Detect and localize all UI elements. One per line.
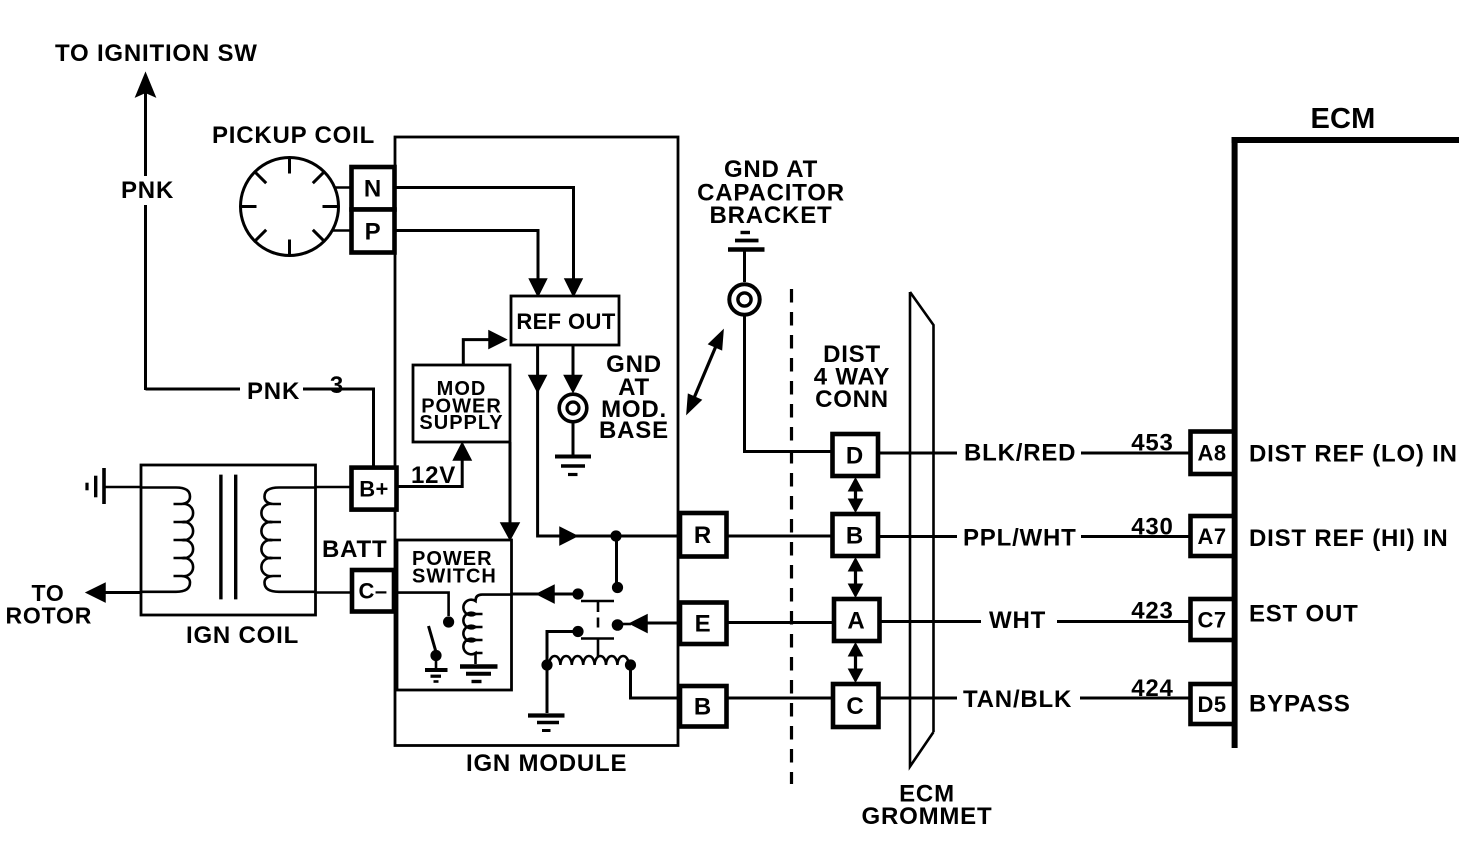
ground under power switch coil <box>460 667 498 682</box>
label TO ROTOR <box>6 580 93 629</box>
wire N to REF OUT (down arrow) <box>395 188 582 297</box>
wire E to connector A <box>727 621 835 624</box>
wire connector B to A7 (PPL/WHT 430) <box>878 535 1190 538</box>
svg-text:IGN COIL: IGN COIL <box>186 622 299 649</box>
svg-text:SUPPLY: SUPPLY <box>419 412 503 434</box>
svg-text:423: 423 <box>1131 598 1173 625</box>
label 423 <box>1131 598 1173 625</box>
svg-text:D: D <box>846 443 864 470</box>
wire power switch to transistor gate (left arrow) <box>512 586 574 603</box>
wire capacitor bracket ground to connector D <box>745 315 834 452</box>
IGN COIL box T1 <box>141 465 316 615</box>
power switch blade (open) <box>429 626 437 652</box>
label 453 <box>1131 430 1173 457</box>
label GND AT CAPACITOR BRACKET <box>697 156 845 229</box>
label IGN COIL <box>186 622 299 649</box>
terminal P box <box>352 210 395 253</box>
svg-text:DIST REF (HI) IN: DIST REF (HI) IN <box>1249 525 1448 552</box>
svg-text:BLK/RED: BLK/RED <box>964 440 1076 467</box>
power switch coil L1 <box>463 595 511 664</box>
wire MOD POWER SUPPLY to POWER SWITCH (down arrow) <box>501 442 519 540</box>
label TO IGNITION SW <box>55 40 258 67</box>
svg-text:BASE: BASE <box>599 417 669 444</box>
wire connector C to D5 (TAN/BLK 424) <box>879 697 1191 700</box>
svg-text:P: P <box>365 219 382 246</box>
connector D box <box>833 434 879 476</box>
output transistor Q1 (Darlington symbol) <box>572 582 623 656</box>
wire coil left to ground <box>546 665 549 713</box>
wire connector D to A8 (BLK/RED 453) <box>878 452 1190 455</box>
label ECM <box>1310 103 1375 135</box>
sideways ground at ign coil primary <box>87 468 141 504</box>
svg-text:C–: C– <box>359 579 388 604</box>
double arrow B to A <box>849 558 863 597</box>
wire E to transistor (left arrow) <box>620 615 680 632</box>
label PNK (vertical wire) <box>121 177 174 204</box>
label BYPASS <box>1249 691 1351 718</box>
ground under power switch blade <box>425 658 448 682</box>
svg-text:CONN: CONN <box>815 386 889 413</box>
svg-text:A: A <box>847 608 865 635</box>
svg-text:GROMMET: GROMMET <box>862 803 993 830</box>
wire REF OUT to module base ground (down arrow) <box>564 345 581 392</box>
wire ign coil to C- <box>316 591 353 594</box>
primary current sense coil L2 <box>541 656 636 671</box>
ign coil primary winding <box>141 488 193 592</box>
dashed bulkhead line <box>790 289 793 784</box>
connector C box <box>833 684 879 727</box>
POWER SWITCH box <box>397 540 512 690</box>
svg-text:BATT: BATT <box>322 536 387 563</box>
ign coil core <box>221 475 236 600</box>
svg-text:B: B <box>846 523 864 550</box>
label BLK/RED <box>964 440 1076 467</box>
wire transistor emitter to coil left <box>547 632 578 663</box>
IGN MODULE outline box <box>395 137 678 746</box>
power switch lower contact node <box>430 650 441 661</box>
svg-text:B: B <box>694 694 712 721</box>
ECM boundary lines <box>1232 137 1459 748</box>
svg-text:TO IGNITION SW: TO IGNITION SW <box>55 40 258 67</box>
label PICKUP COIL <box>212 122 375 149</box>
svg-text:E: E <box>695 611 712 638</box>
label EST OUT <box>1249 601 1359 628</box>
label 424 <box>1131 675 1173 702</box>
svg-text:PICKUP COIL: PICKUP COIL <box>212 122 375 149</box>
svg-text:B+: B+ <box>359 477 389 502</box>
wire ign coil to B+ <box>316 486 352 489</box>
grommet eyelet at capacitor bracket <box>729 284 759 314</box>
label BATT <box>322 536 387 563</box>
REF OUT box U1 <box>511 296 619 345</box>
ECM pin A7 box <box>1191 516 1235 556</box>
terminal N box <box>352 167 395 210</box>
svg-text:A7: A7 <box>1198 524 1227 549</box>
svg-text:3: 3 <box>330 372 344 399</box>
ECM pin D5 box <box>1191 684 1235 724</box>
ign coil secondary winding <box>261 488 315 592</box>
wire pickup coil to terminal P <box>332 229 354 232</box>
wire B+ 12V feed to MOD POWER SUPPLY (up arrow) <box>397 443 471 487</box>
label 3 (circuit number) <box>330 372 344 399</box>
svg-text:BRACKET: BRACKET <box>710 202 833 229</box>
svg-text:PPL/WHT: PPL/WHT <box>963 525 1077 552</box>
label PPL/WHT <box>963 525 1077 552</box>
wire to rotor (left arrow) <box>87 584 142 602</box>
label IGN MODULE <box>466 750 627 777</box>
svg-text:TAN/BLK: TAN/BLK <box>963 686 1072 713</box>
wire junction down to output transistor <box>615 536 618 584</box>
svg-text:424: 424 <box>1131 675 1173 702</box>
terminal B+ box <box>352 468 397 510</box>
label 430 <box>1131 514 1173 541</box>
svg-text:R: R <box>694 522 712 549</box>
svg-text:C: C <box>846 693 864 720</box>
svg-text:WHT: WHT <box>989 607 1046 634</box>
wire R to connector B <box>727 535 833 538</box>
wire pickup coil to terminal N <box>334 186 353 189</box>
double arrow module base to bracket <box>687 331 723 414</box>
wire REF OUT output to R (down then right arrow, junction) <box>529 345 680 545</box>
label TAN/BLK <box>963 686 1072 713</box>
wire coil right to terminal B <box>631 665 681 698</box>
ECM pin A8 box <box>1191 432 1235 475</box>
ECM pin C7 box <box>1191 599 1235 640</box>
label GND AT MOD. BASE <box>599 351 669 444</box>
svg-text:PNK: PNK <box>121 177 174 204</box>
terminal C- box <box>352 570 394 612</box>
svg-text:C7: C7 <box>1198 608 1227 633</box>
wire connector A to C7 (WHT 423) <box>880 620 1191 623</box>
label 12V <box>411 462 456 489</box>
svg-text:N: N <box>364 176 382 203</box>
label WHT <box>989 607 1046 634</box>
svg-text:SWITCH: SWITCH <box>412 566 497 588</box>
double arrow A to C <box>849 643 863 682</box>
wire PNK to ignition switch with up arrow <box>137 74 155 390</box>
wire B to connector C <box>727 697 834 700</box>
terminal E box <box>680 603 727 645</box>
wire P to REF OUT (down arrow) <box>395 231 547 297</box>
MOD POWER SUPPLY box <box>413 365 510 442</box>
svg-text:REF OUT: REF OUT <box>516 309 616 334</box>
label ECM GROMMET <box>862 781 993 831</box>
svg-text:ROTOR: ROTOR <box>6 603 93 629</box>
wire MOD POWER SUPPLY to REF OUT (right arrow) <box>463 331 506 365</box>
label DIST 4 WAY CONN <box>814 341 890 413</box>
svg-text:430: 430 <box>1131 514 1173 541</box>
svg-text:IGN MODULE: IGN MODULE <box>466 750 627 777</box>
ground under coil <box>528 716 565 731</box>
label DIST REF (HI) IN <box>1249 525 1448 552</box>
grommet eyelet at module base <box>559 394 587 422</box>
double arrow D to B <box>849 478 863 512</box>
terminal R box <box>680 513 727 557</box>
ECM grommet outline <box>910 292 934 767</box>
connector A box <box>834 599 880 641</box>
svg-text:12V: 12V <box>411 462 456 489</box>
svg-text:ECM: ECM <box>1310 103 1375 135</box>
power switch contact node <box>443 616 454 627</box>
svg-text:PNK: PNK <box>247 378 300 405</box>
terminal B box <box>680 686 727 727</box>
label PNK (horizontal wire) <box>247 378 300 405</box>
connector B box <box>833 514 879 556</box>
power switch contact wire from C- <box>397 593 449 616</box>
svg-text:453: 453 <box>1131 430 1173 457</box>
ground at module base <box>555 422 591 475</box>
svg-text:D5: D5 <box>1198 692 1227 717</box>
node junction at R line <box>610 530 621 541</box>
ground at capacitor bracket (inverted) <box>728 233 765 283</box>
svg-text:A8: A8 <box>1198 441 1227 466</box>
svg-text:BYPASS: BYPASS <box>1249 691 1351 718</box>
svg-text:DIST REF (LO) IN: DIST REF (LO) IN <box>1249 441 1458 468</box>
label DIST REF (LO) IN <box>1249 441 1458 468</box>
pickup coil (toothed wheel symbol) <box>241 158 339 256</box>
svg-text:EST OUT: EST OUT <box>1249 601 1359 628</box>
wire PNK horizontal to B+ <box>146 389 374 468</box>
